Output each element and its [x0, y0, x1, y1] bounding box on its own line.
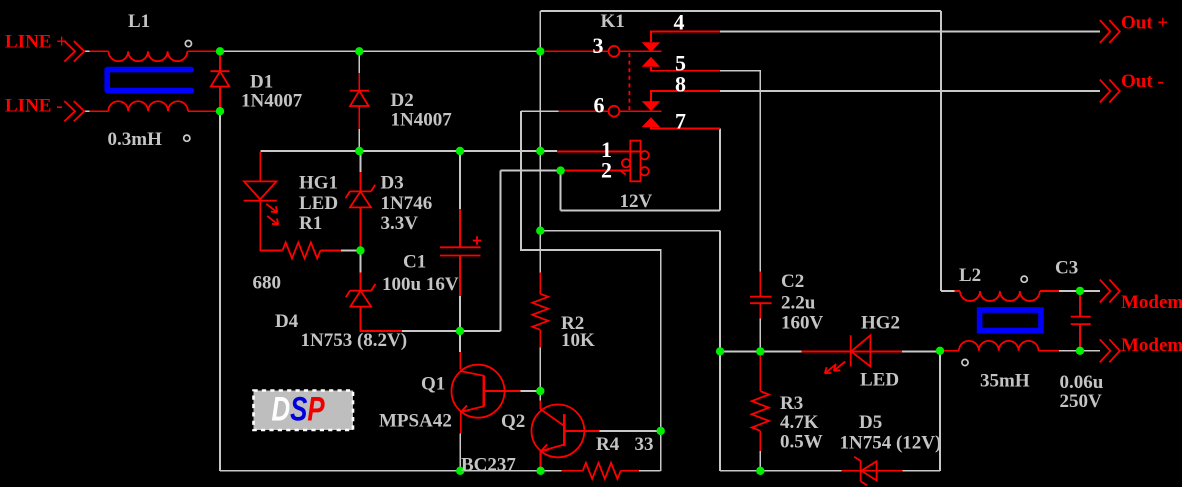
node x720 HG2 row	[716, 347, 724, 355]
wire R2 red leads	[539, 273, 541, 348]
svg-text:0.3mH: 0.3mH	[108, 129, 163, 150]
wire D3 top lead gray part	[359, 151, 361, 172]
wire LINE- red lead to L1	[89, 110, 108, 112]
wire HG2 row left part	[720, 350, 801, 352]
wire R4 left gray stub	[543, 470, 562, 472]
svg-text:C1: C1	[403, 251, 426, 272]
svg-text:BC237: BC237	[461, 454, 516, 475]
svg-text:Out -: Out -	[1121, 71, 1164, 92]
svg-text:HG1: HG1	[299, 173, 338, 194]
svg-text:LINE -: LINE -	[5, 96, 63, 117]
svg-text:C3: C3	[1055, 258, 1078, 279]
wire Q1 base gray part	[520, 390, 540, 392]
wire Q2 base gray part	[539, 391, 541, 401]
diode D1	[210, 71, 229, 86]
wire contact8 stub	[651, 91, 720, 101]
resistor R4	[583, 463, 621, 479]
relay K1 contact 5	[642, 57, 661, 67]
wire y210 run coil to contact7	[561, 210, 721, 212]
wire bottom right rail	[720, 470, 841, 472]
svg-text:LINE +: LINE +	[5, 32, 67, 53]
resistor R3	[752, 391, 769, 431]
svg-text:LED: LED	[860, 369, 899, 390]
wire D4 red leads	[360, 273, 402, 331]
svg-text:2.2u: 2.2u	[781, 293, 816, 314]
svg-text:35mH: 35mH	[980, 370, 1030, 391]
node C1 bottom / D4 / Q1 collector	[456, 327, 464, 335]
wire R1 right gray part	[341, 250, 360, 252]
wire Q2 base red	[539, 401, 541, 410]
choke L2 polarity dot bottom	[962, 359, 968, 365]
choke L2 polarity dot top	[1021, 276, 1027, 282]
node LINE- / L1 / D1	[216, 107, 224, 115]
svg-text:4: 4	[674, 9, 685, 34]
wire contact4 to Out+	[720, 31, 1100, 33]
wire L2 bottom to modem bottom	[1059, 350, 1100, 352]
wire y230 run to right riser	[540, 230, 720, 232]
wire right vertical x941 down to L2 top	[940, 11, 942, 291]
svg-text:10K: 10K	[561, 330, 595, 351]
wire Q1 emitter red	[460, 412, 462, 434]
wire coil pin2 red	[562, 170, 630, 172]
svg-text:D2: D2	[391, 90, 414, 111]
wire contact5 to C2 top	[720, 71, 761, 272]
wire contact7 stub	[651, 127, 720, 129]
wire pole6 down-and-right run	[521, 111, 661, 471]
svg-text:0.5W: 0.5W	[780, 431, 823, 452]
connector LINE+ chevron	[64, 41, 84, 62]
capacitor C2	[750, 297, 772, 304]
svg-text:L2: L2	[959, 265, 981, 286]
zener D4	[346, 284, 376, 307]
choke L2 top winding	[960, 291, 1040, 301]
wire x720 down riser to bottom rail	[719, 231, 721, 471]
svg-text:1N753 (8.2V): 1N753 (8.2V)	[301, 330, 408, 351]
svg-text:1N4007: 1N4007	[391, 110, 453, 131]
wire Q1 collector red	[459, 352, 461, 370]
wire x500 riser	[500, 171, 502, 331]
node C1 top	[456, 147, 464, 155]
wire contact4 stub	[651, 32, 720, 43]
svg-text:4.7K: 4.7K	[780, 412, 819, 433]
wire D1 leads	[219, 51, 221, 111]
node HG2 / L2 bottom	[936, 347, 944, 355]
choke L1 core	[107, 70, 191, 91]
capacitor C3	[1071, 317, 1091, 325]
wire C1 bottom gray part	[459, 296, 461, 331]
connector Out+ chevron	[1100, 20, 1120, 43]
capacitor C1	[440, 247, 481, 255]
wire D5 red	[842, 470, 903, 472]
connector Out- chevron	[1100, 80, 1120, 103]
node LINE+ / L1 / D1	[216, 47, 224, 55]
wire Q2 emitter red	[540, 451, 542, 471]
DSP logo	[254, 391, 354, 431]
wire pole6 contact line	[619, 110, 661, 112]
wire R3 red leads	[759, 354, 761, 451]
svg-text:MPSA42: MPSA42	[379, 410, 452, 431]
wire pin2 down arm	[560, 171, 562, 211]
wire Q1 base red	[484, 390, 521, 392]
wire top rail LINE+ to relay	[222, 50, 540, 52]
wire contact7 riser	[719, 129, 721, 211]
svg-text:Q2: Q2	[501, 411, 525, 432]
wire HG1 bottom to R1 corner	[260, 201, 282, 251]
connector LINE- chevron	[64, 101, 84, 121]
relay K1 contact 8	[642, 101, 661, 111]
wire C2 red leads	[759, 272, 761, 319]
svg-text:K1: K1	[601, 11, 625, 32]
node C2 bottom / HG2 / R3	[756, 347, 764, 355]
resistor R1	[283, 242, 321, 258]
svg-text:Modem: Modem	[1121, 292, 1182, 313]
svg-text:250V: 250V	[1060, 391, 1103, 412]
wire R4 red leads	[562, 470, 640, 472]
choke L2 core	[980, 310, 1041, 331]
capacitor C1 plus sign	[473, 236, 481, 244]
node Q2 emitter rail	[536, 467, 544, 475]
node coil pin2	[556, 166, 564, 174]
wire D4 top lead gray part	[359, 251, 361, 273]
wire LINE- down vertical	[219, 111, 221, 471]
svg-text:3: 3	[593, 33, 604, 58]
svg-text:2: 2	[601, 157, 612, 182]
relay K1 pole 6	[609, 106, 620, 117]
transistor Q1	[452, 365, 505, 418]
resistor R2	[532, 294, 548, 330]
wire R1 right lead	[321, 249, 342, 251]
node C3 bottom / Modem-	[1076, 347, 1084, 355]
relay K1 contact 7	[642, 117, 661, 127]
svg-text:D5: D5	[859, 412, 882, 433]
wire C3 red leads	[1079, 291, 1081, 351]
svg-text:1N754 (12V): 1N754 (12V)	[840, 433, 942, 454]
svg-text:LED: LED	[299, 193, 338, 214]
node Q2 collector	[657, 427, 665, 435]
wire vertical x540 top to pole3 node	[539, 11, 541, 51]
node rail / coil pin1	[536, 147, 544, 155]
wire pin2 left arm to x500 riser	[501, 170, 561, 172]
wire D2 bottom lead gray part	[358, 129, 360, 151]
node Q1 emitter rail	[456, 467, 464, 475]
svg-text:L1: L1	[128, 11, 150, 32]
svg-text:Modem: Modem	[1121, 335, 1182, 356]
node C3 top / Modem+	[1076, 287, 1084, 295]
wire pole3 contact line	[619, 50, 661, 52]
svg-text:7: 7	[675, 108, 686, 133]
wire Q1 collector gray part	[459, 331, 461, 352]
svg-text:3.3V: 3.3V	[381, 213, 419, 234]
svg-text:33: 33	[635, 434, 654, 455]
wire L1 top right lead	[187, 50, 220, 52]
wire L2 top red leads	[955, 290, 1060, 292]
wire D3 red leads	[359, 172, 361, 250]
wire L2 top to modem top	[1059, 290, 1100, 292]
svg-text:1N4007: 1N4007	[241, 91, 303, 112]
wire C1 red leads	[459, 209, 461, 296]
svg-text:DSP: DSP	[272, 391, 326, 428]
svg-text:HG2: HG2	[861, 313, 900, 334]
svg-text:0.06u: 0.06u	[1060, 372, 1104, 393]
wire contact5 stub	[651, 67, 720, 71]
wire LINE- connector stub	[84, 110, 89, 112]
wire R3 bottom gray part	[759, 451, 761, 471]
choke L1 bottom winding	[108, 101, 188, 111]
svg-text:D4: D4	[275, 311, 299, 332]
wire R2 bottom to Q bases	[539, 348, 541, 392]
node Q1 base / Q2 base	[536, 387, 544, 395]
svg-text:100u 16V: 100u 16V	[382, 274, 459, 295]
transistor Q2	[532, 405, 585, 458]
node R2 top	[536, 227, 544, 235]
svg-text:R4: R4	[596, 434, 620, 455]
connector Modem top chevron	[1100, 280, 1120, 303]
svg-text:R3: R3	[780, 393, 803, 414]
svg-text:8: 8	[675, 71, 686, 96]
wire right riser to HG2 row	[939, 351, 941, 471]
wire Q2 collector red	[564, 430, 599, 432]
node R1 / D3 / D4	[356, 246, 364, 254]
diode D2	[350, 91, 369, 106]
wire LINE+ connector stub	[84, 50, 89, 52]
wire C1 top lead gray part	[459, 151, 461, 209]
wire C2 upper lead gray	[759, 319, 761, 352]
svg-text:Q1: Q1	[421, 374, 445, 395]
choke L2 bottom winding	[959, 341, 1039, 351]
svg-text:D1: D1	[250, 71, 273, 92]
zener D3	[346, 185, 376, 208]
connector Modem bottom chevron	[1100, 339, 1120, 362]
svg-text:R1: R1	[299, 213, 322, 234]
wire Q2 collector gray part	[599, 430, 660, 432]
svg-text:6: 6	[594, 92, 605, 117]
wire D2 red leads	[358, 73, 360, 129]
node pole3 branch	[536, 47, 544, 55]
wire LINE+ red lead to L1	[89, 50, 108, 52]
wire C1 bottom row link	[460, 330, 501, 332]
LED HG2	[825, 335, 871, 373]
node R3 bottom rail	[756, 467, 764, 475]
choke L1 polarity dot bottom	[184, 135, 190, 141]
choke L1 polarity dot top	[185, 41, 191, 47]
wire HG2 row red	[802, 350, 903, 352]
relay K1 contact 4	[642, 42, 661, 52]
wire D2 top lead gray part	[358, 51, 360, 73]
svg-text:C2: C2	[781, 271, 804, 292]
svg-text:D3: D3	[381, 173, 404, 194]
wire pole3 red lead	[545, 50, 609, 52]
wire HG2 row right part	[902, 350, 937, 352]
node D2 bottom rail	[355, 147, 363, 155]
wire bottom left rail	[220, 470, 562, 472]
wire L2 bottom red leads	[940, 350, 1059, 352]
wire rail C (D2 bottom row)	[260, 150, 557, 152]
wire pole6 left arm	[521, 110, 559, 112]
choke L1 top winding	[109, 51, 188, 61]
svg-text:1N746: 1N746	[381, 193, 433, 214]
svg-text:Out +: Out +	[1121, 13, 1168, 34]
wire D4 row gray part	[402, 330, 460, 332]
svg-text:160V: 160V	[781, 313, 824, 334]
node D2 top	[355, 47, 363, 55]
wire pole6 red lead	[559, 110, 609, 112]
relay K1 pole 3	[609, 46, 620, 57]
wire HG1 top lead	[259, 152, 261, 181]
wire coil pin1 red	[557, 150, 641, 152]
wire Q1 emitter gray part	[459, 434, 461, 471]
relay K1 coil	[621, 141, 649, 182]
wire L1 bottom right lead	[188, 110, 220, 112]
wire mid column x540	[539, 51, 541, 272]
LED HG1	[244, 181, 279, 224]
relay K1 mechanical link dashed	[628, 53, 630, 110]
wire contact8 to Out-	[720, 90, 1100, 92]
svg-text:12V: 12V	[620, 191, 653, 212]
wire L2 top lead-in	[941, 290, 955, 292]
zener D5	[854, 457, 876, 486]
svg-text:680: 680	[253, 272, 282, 293]
wire top box run y11	[540, 10, 941, 12]
